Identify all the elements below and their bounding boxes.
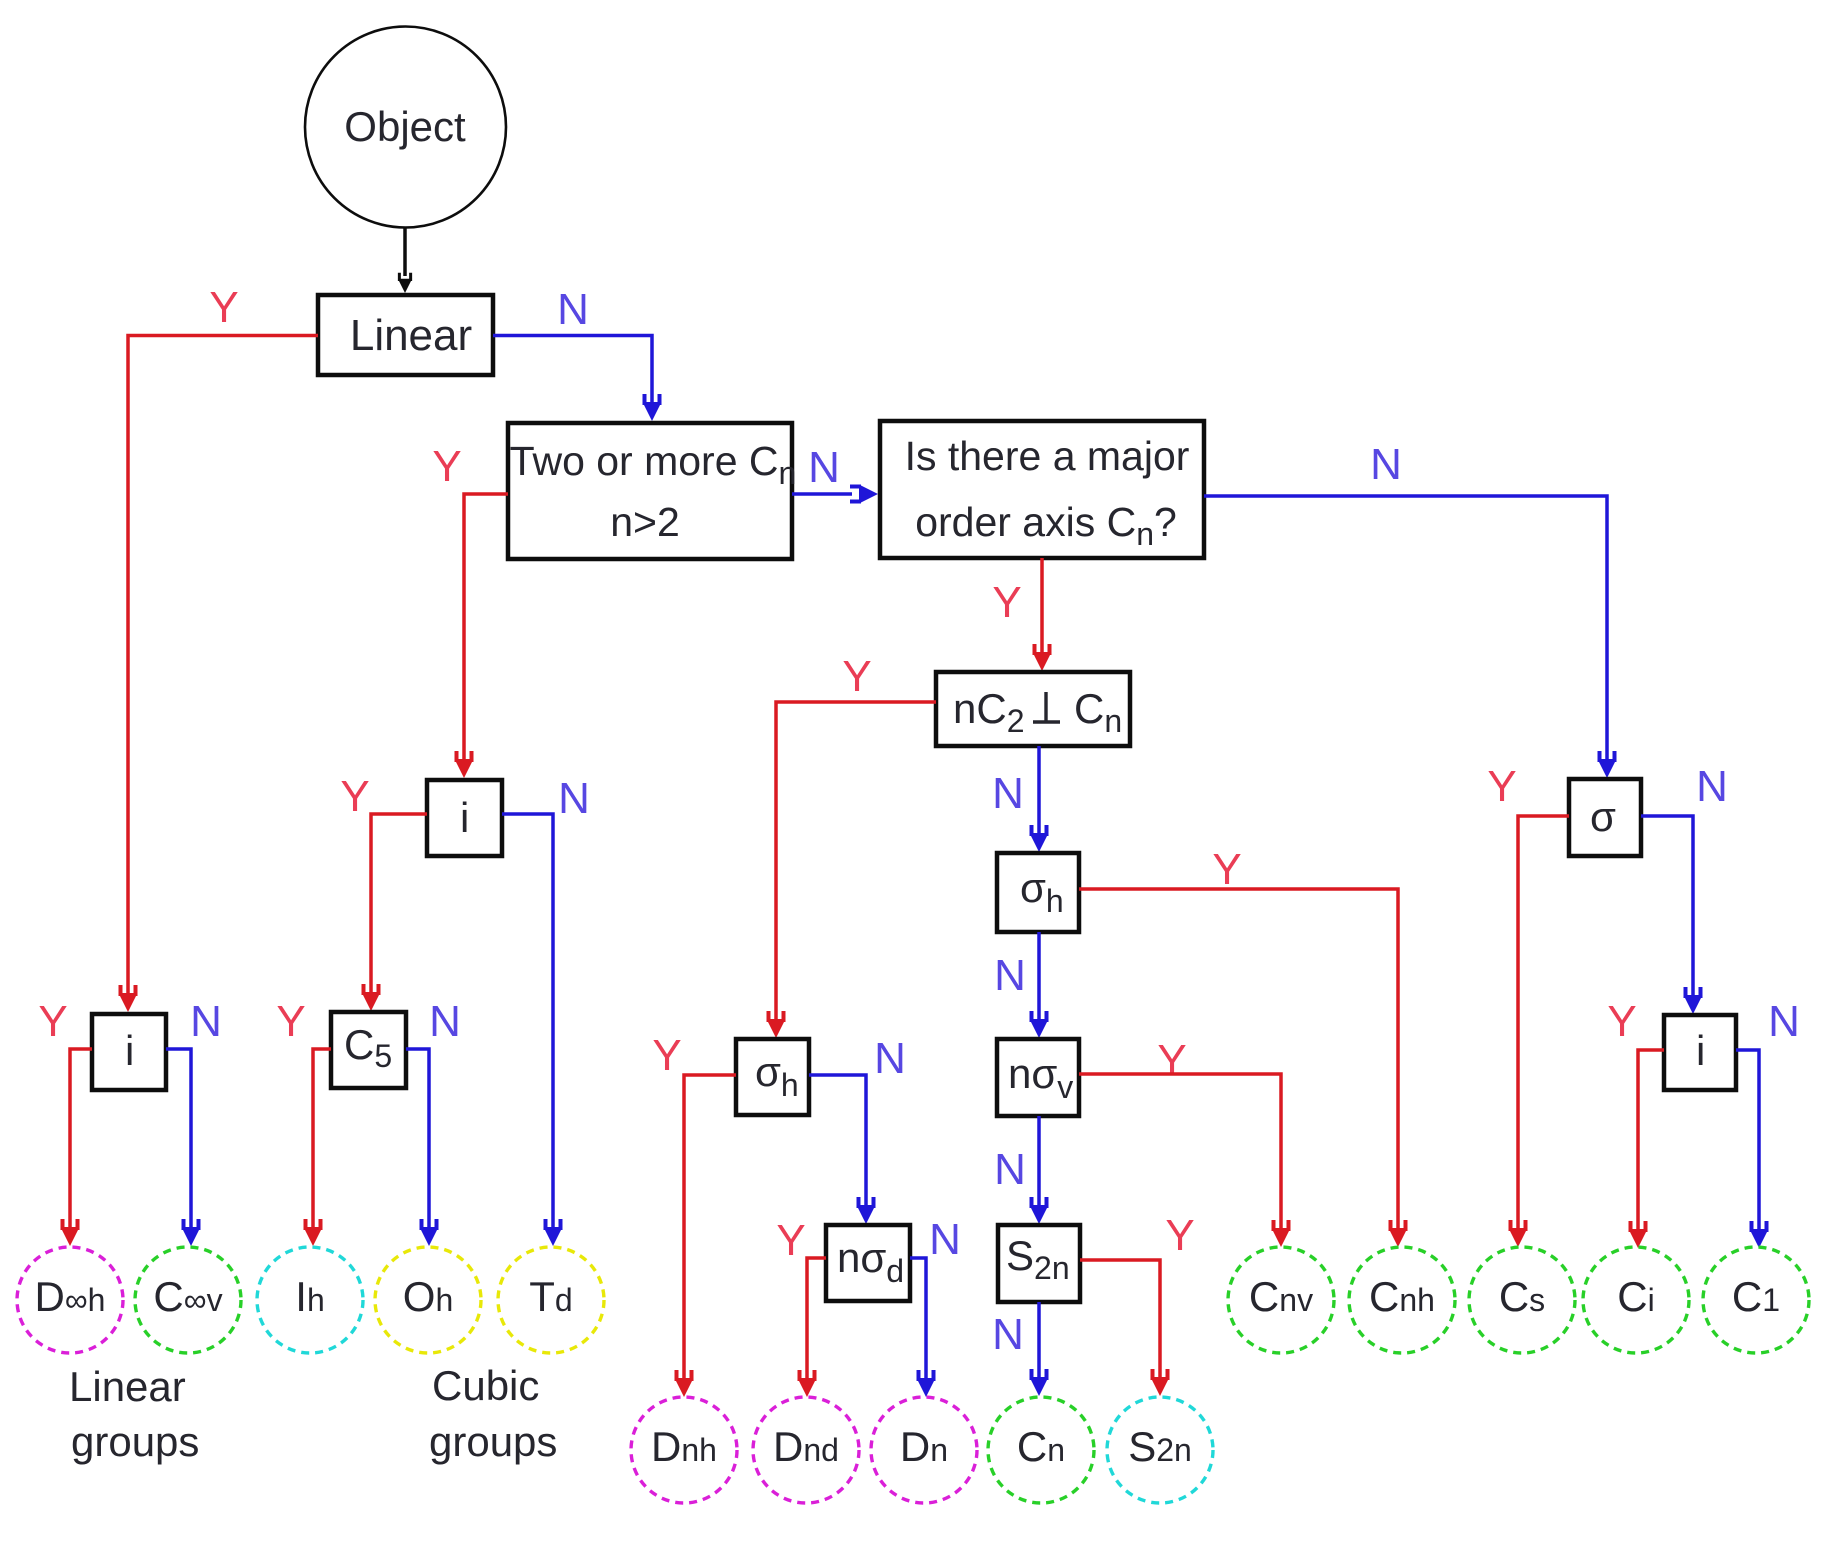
wire n-sigma-d N to Dn circle (910, 1258, 926, 1378)
wire sigma Y to Cs circle (1518, 816, 1569, 1228)
wire i right N to C1 circle (1736, 1050, 1759, 1229)
terminal node Cnh (1349, 1247, 1455, 1353)
svg-text:Y: Y (1157, 1036, 1186, 1085)
svg-text:N: N (1370, 440, 1402, 489)
decision box sigma (1569, 779, 1641, 856)
svg-text:Is there a major: Is there a major (905, 433, 1190, 479)
svg-text:Y: Y (432, 442, 461, 491)
svg-text:Y: Y (38, 997, 67, 1046)
svg-text:N: N (190, 997, 222, 1046)
svg-text:N: N (992, 769, 1024, 818)
svg-text:Y: Y (842, 652, 871, 701)
svg-text:groups: groups (429, 1418, 557, 1465)
wire n-sigma-d Y to Dnd circle (807, 1258, 826, 1378)
svg-text:Y: Y (1607, 997, 1636, 1046)
node Object (start circle) (305, 27, 506, 228)
decision box nC2 perpendicular Cn (936, 672, 1130, 746)
decision box sigma-h (middle) (997, 853, 1079, 932)
svg-text:Y: Y (652, 1031, 681, 1080)
wire Two-or-more Y to i (cubic) (464, 494, 508, 759)
wire nC2 N to sigma-h mid box (1037, 746, 1041, 833)
svg-text:Two or more Cn: Two or more Cn (510, 438, 797, 491)
wire sigma-h mid Y to Cnh circle (1079, 889, 1398, 1228)
svg-text:N: N (557, 285, 589, 334)
svg-text:Object: Object (344, 103, 466, 150)
svg-text:N: N (429, 997, 461, 1046)
svg-text:i: i (1696, 1027, 1705, 1074)
wire C5 Y to Ih circle (313, 1049, 331, 1227)
terminal node S2n (circle) (1107, 1397, 1213, 1503)
svg-text:Y: Y (776, 1216, 805, 1265)
terminal node Dnd (753, 1397, 859, 1503)
svg-text:N: N (558, 774, 590, 823)
wire Is-there N to sigma box (1204, 496, 1607, 759)
svg-text:Y: Y (340, 772, 369, 821)
decision box i (right) (1664, 1015, 1736, 1090)
wire i center N to Td circle (502, 814, 553, 1227)
svg-text:n>2: n>2 (610, 499, 680, 545)
terminal node Ih (257, 1247, 363, 1353)
decision box i (center, cubic test) (427, 780, 502, 856)
svg-text:N: N (808, 443, 840, 492)
svg-text:N: N (992, 1310, 1024, 1359)
wire n-sigma-v Y to Cnv circle (1079, 1074, 1281, 1228)
wire sigma-h left N to n-sigma-d box (809, 1075, 866, 1206)
wire i left N to Cinf-v circle (166, 1049, 191, 1227)
perpendicular symbol (1033, 692, 1060, 722)
decision box n-sigma-d (826, 1225, 910, 1301)
svg-text:Y: Y (1165, 1211, 1194, 1260)
wire n-sigma-v N to S2n box (1037, 1116, 1041, 1205)
wire C5 N to Oh circle (406, 1049, 429, 1227)
svg-text:N: N (874, 1034, 906, 1083)
decision box i (left, linear test) (92, 1014, 166, 1090)
svg-text:i: i (460, 794, 469, 841)
svg-text:N: N (1696, 762, 1728, 811)
wire i right Y to Ci circle (1638, 1050, 1664, 1229)
wire S2n N to Cn circle (1037, 1302, 1041, 1377)
wire sigma-h left Y to Dnh circle (684, 1075, 736, 1378)
svg-text:Y: Y (276, 997, 305, 1046)
svg-text:Y: Y (1212, 845, 1241, 894)
svg-text:groups: groups (71, 1418, 199, 1465)
svg-text:σ: σ (1590, 793, 1616, 840)
wire i left Y to Dinf-h circle (70, 1049, 92, 1227)
terminal node Cn (988, 1397, 1094, 1503)
svg-text:N: N (994, 951, 1026, 1000)
wire Linear N to Two-or-more box (493, 336, 652, 403)
terminal node Ci (1583, 1247, 1689, 1353)
decision box Linear (318, 295, 493, 375)
decision box Is there a major order axis Cn? (880, 421, 1204, 558)
svg-text:N: N (929, 1215, 961, 1264)
svg-text:Y: Y (209, 283, 238, 332)
wire nC2 Y to sigma-h left box (776, 702, 936, 1019)
decision box Two or more Cn n>2 (508, 423, 792, 559)
svg-text:Y: Y (1487, 762, 1516, 811)
terminal node Dinf-h (17, 1247, 123, 1353)
wire sigma N to i right box (1641, 816, 1693, 995)
wire Two-or-more N to Is-there box (792, 492, 852, 496)
decision box S2n (998, 1225, 1080, 1302)
wire Is-there Y to nC2 box (1040, 558, 1044, 652)
svg-text:Cubic: Cubic (432, 1362, 539, 1409)
svg-text:N: N (994, 1145, 1026, 1194)
decision box n-sigma-v (997, 1039, 1079, 1116)
svg-text:N: N (1768, 997, 1800, 1046)
terminal node Dn (871, 1397, 977, 1503)
wire sigma-h mid N to n-sigma-v box (1037, 932, 1041, 1019)
terminal node Cs (1469, 1247, 1575, 1353)
wire S2n Y to S2n circle (1080, 1260, 1160, 1377)
wire Linear Y to i (linear branch) (128, 336, 318, 994)
terminal node Oh (375, 1247, 481, 1353)
terminal node Dnh (631, 1397, 737, 1503)
svg-text:Y: Y (992, 578, 1021, 627)
terminal node C1 (1703, 1247, 1809, 1353)
decision box C5 (331, 1012, 406, 1088)
svg-text:Linear: Linear (350, 311, 472, 360)
svg-text:i: i (125, 1027, 134, 1074)
terminal node Td (498, 1247, 604, 1353)
wire Object to Linear (403, 228, 407, 276)
svg-text:Linear: Linear (69, 1363, 186, 1410)
terminal node Cnv (1228, 1247, 1334, 1353)
wire i center Y to C5 box (371, 814, 427, 992)
decision box sigma-h (left) (736, 1039, 809, 1115)
terminal node Cinf-v (135, 1247, 241, 1353)
